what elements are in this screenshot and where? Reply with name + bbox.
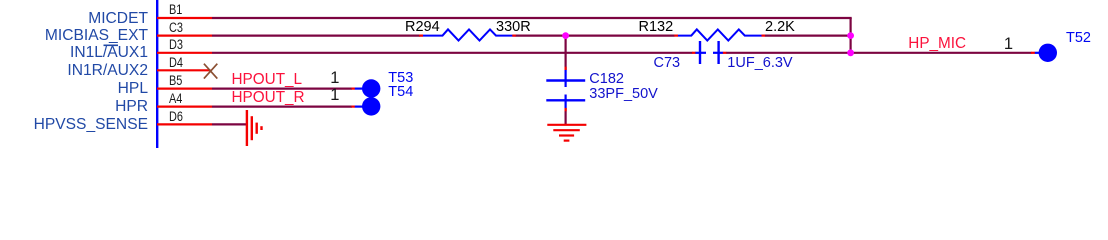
pin number B5	[169, 74, 182, 88]
resistor R294 ref label	[405, 20, 440, 35]
net label HPOUT_L	[232, 72, 303, 87]
pin C3 stub (MICBIAS_EXT)	[157, 34, 212, 36]
wire IN1L/AUX1 to C73	[212, 52, 693, 54]
resistor R1 pin tips red	[419, 34, 516, 36]
wire MICDET net (B1 row)	[212, 17, 852, 19]
pin name HPVSS_SENSE	[34, 117, 148, 133]
pin D6 stub (HPVSS_SENSE)	[157, 123, 212, 125]
pin number D6	[169, 110, 183, 124]
net label HPOUT_R	[232, 90, 305, 105]
pin D4 stub (IN1R/AUX2, no-connect)	[157, 69, 211, 71]
pin name IN1L/AUX1	[70, 45, 148, 61]
wire vertical bus at right joining B1/C3/D3 rows	[849, 18, 851, 53]
resistor R2 = R132 zigzag	[678, 29, 762, 40]
resistor R132 ref label	[639, 20, 674, 35]
test point T54 pad	[362, 97, 380, 115]
wire HPVSS_SENSE to ground	[212, 123, 246, 125]
resistor R294 value 330R	[496, 20, 531, 35]
test point T52 pad	[1039, 44, 1057, 62]
capacitor C182 leads	[564, 70, 566, 109]
pin number C3	[169, 21, 183, 35]
pin A4 stub (HPR)	[157, 105, 212, 107]
overline over A of IN1L/AUX1	[104, 44, 119, 46]
capacitor C73 ref label	[654, 56, 681, 71]
wire node A down to C182	[564, 36, 566, 70]
resistor R2 pin tips red	[674, 34, 765, 36]
wire HPR to T54	[212, 105, 352, 107]
capacitor C182 value 33PF_50V	[589, 87, 658, 102]
resistor R1 = R294 zigzag	[420, 29, 516, 40]
wire MICBIAS_EXT to R294	[212, 34, 420, 36]
test point T54 pin stub	[352, 105, 364, 107]
wire C182 to ground	[564, 108, 566, 125]
test point T54 label	[388, 85, 413, 100]
capacitor C73 leads	[695, 52, 723, 54]
wire R132 to node bus	[765, 34, 851, 36]
pin name MICBIAS_EXT	[45, 28, 148, 44]
test point T52 label	[1066, 31, 1091, 46]
test point T52 pin stub	[1031, 52, 1041, 54]
wire C73 to node B	[726, 52, 851, 54]
test point T54 pin number 1	[330, 87, 339, 104]
ground (earth) below C182	[547, 125, 586, 141]
ground (earth, rotated) on HPVSS_SENSE	[247, 110, 262, 146]
wire R294 to R132	[516, 34, 675, 36]
junction dot at bus top (C3 row)	[847, 32, 854, 39]
wire HP_MIC output to T52	[851, 52, 1032, 54]
junction dot at bus bottom (D3 row)	[847, 49, 854, 56]
pin number D3	[169, 38, 183, 52]
capacitor C182 ref label	[589, 72, 624, 87]
resistor R132 value 2.2K	[765, 20, 795, 35]
pin B1 stub (MICDET)	[157, 17, 212, 19]
pin name MICDET	[88, 11, 148, 27]
test point T53 pin number 1	[330, 70, 339, 87]
test point T53 pad	[362, 79, 380, 97]
pin name HPR	[115, 99, 148, 115]
pin B5 stub (HPL)	[157, 87, 212, 89]
capacitor C73 pin tips red	[692, 52, 726, 54]
net label HP_MIC	[908, 36, 966, 51]
pin number B1	[169, 3, 182, 17]
pin name IN1R/AUX2	[67, 63, 148, 79]
test point T53 pin stub	[352, 87, 364, 89]
junction dot node A (R294/R132/C182)	[562, 32, 569, 39]
no-connect X on D4	[204, 64, 217, 79]
pin number D4	[169, 56, 183, 70]
capacitor C182 plates	[546, 81, 585, 101]
capacitor C73 value 1UF_6.3V	[727, 56, 792, 71]
wire HPL to T53	[212, 87, 352, 89]
capacitor C182 pin tips red	[564, 67, 566, 112]
pin number A4	[169, 92, 182, 106]
pin D3 stub (IN1L/AUX1)	[157, 52, 212, 54]
capacitor C73 plates	[700, 41, 719, 64]
test point T53 label	[388, 71, 413, 86]
op-amp U? IC body edge (connector/codec symbol left edge)	[156, 0, 158, 148]
pin name HPL	[118, 81, 148, 97]
test point T52 pin number 1	[1004, 36, 1013, 53]
